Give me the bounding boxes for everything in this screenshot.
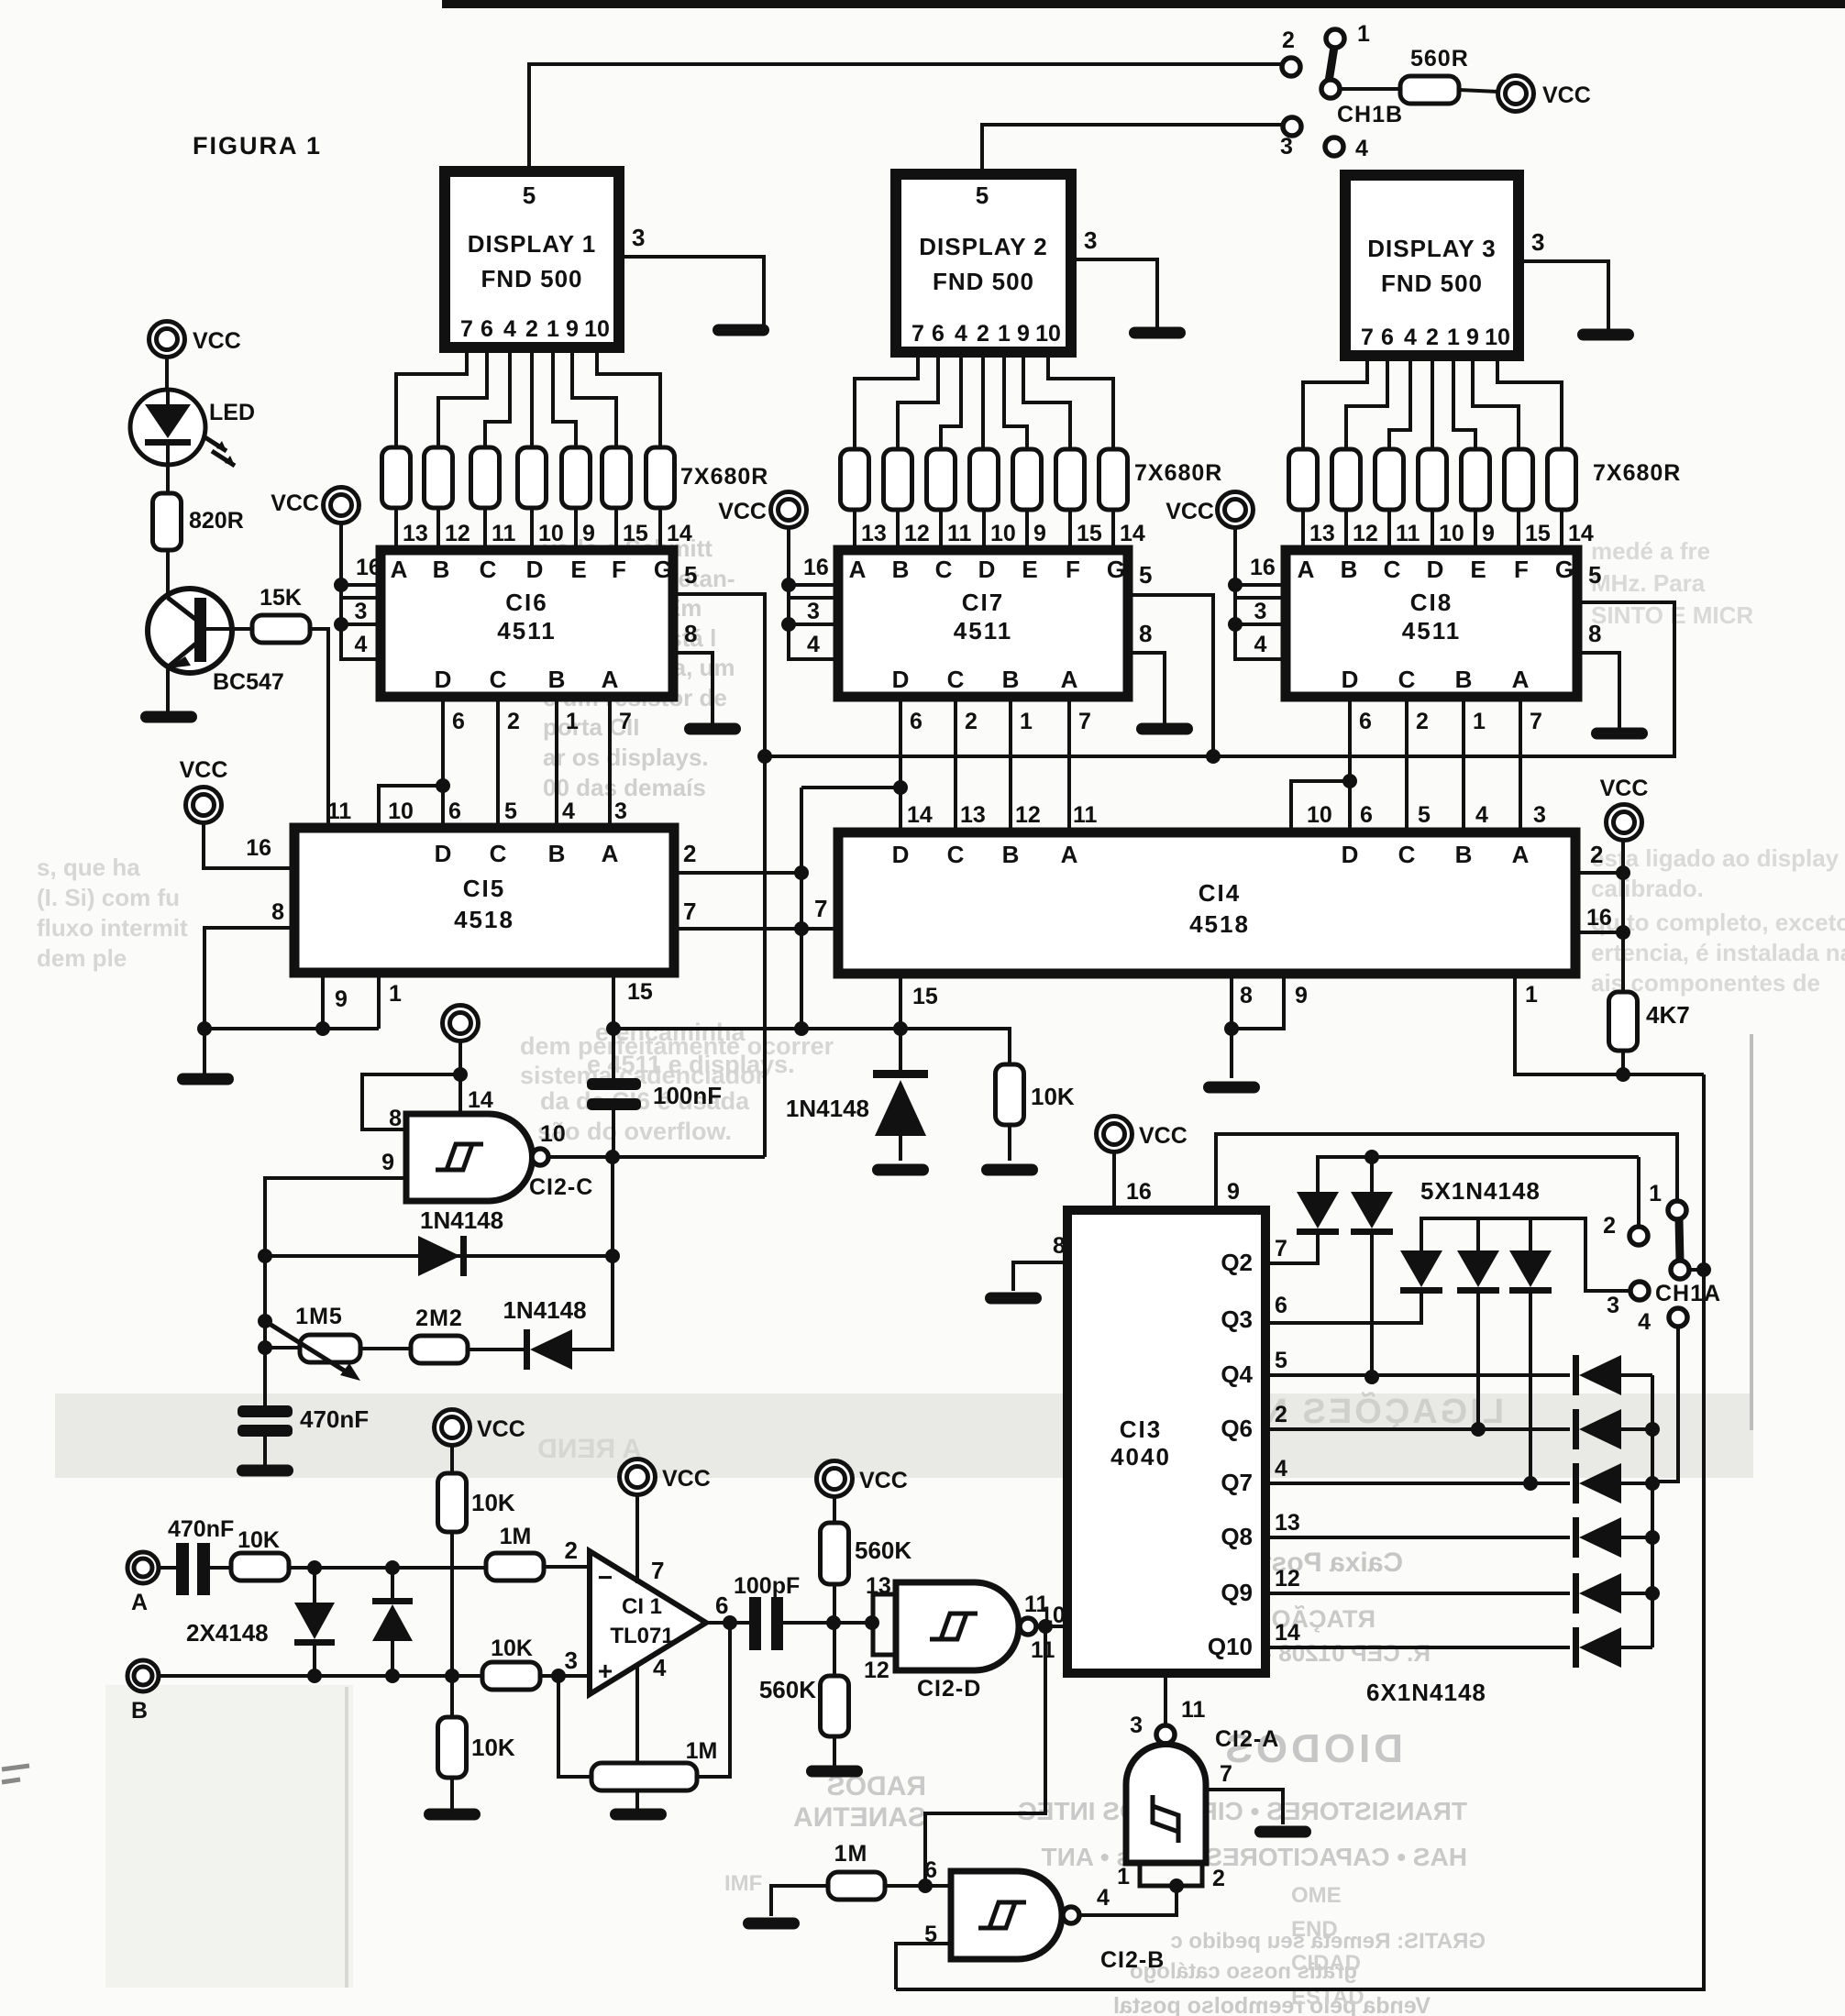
svg-text:11: 11 xyxy=(1181,1697,1206,1723)
svg-text:6: 6 xyxy=(1381,325,1394,350)
svg-text:CI3: CI3 xyxy=(1120,1416,1162,1443)
svg-text:2: 2 xyxy=(1282,28,1295,53)
svg-text:D: D xyxy=(435,840,452,867)
svg-text:A: A xyxy=(602,666,619,693)
svg-text:13: 13 xyxy=(1309,521,1335,546)
svg-text:3: 3 xyxy=(1533,802,1546,828)
svg-text:10: 10 xyxy=(584,316,610,342)
svg-text:SINTO E MICR: SINTO E MICR xyxy=(1591,601,1753,629)
svg-text:CI4: CI4 xyxy=(1199,879,1241,907)
svg-text:CI2-D: CI2-D xyxy=(917,1676,981,1702)
svg-text:6: 6 xyxy=(452,709,465,734)
svg-text:4: 4 xyxy=(355,632,368,657)
svg-text:4K7: 4K7 xyxy=(1646,1001,1690,1029)
svg-text:12: 12 xyxy=(864,1658,889,1683)
svg-text:11: 11 xyxy=(492,521,516,546)
svg-text:DISPLAY 2: DISPLAY 2 xyxy=(919,233,1048,260)
svg-text:C: C xyxy=(490,666,507,693)
svg-text:CI2-B: CI2-B xyxy=(1100,1947,1165,1973)
svg-text:10: 10 xyxy=(1035,321,1061,347)
svg-text:00 das demaís: 00 das demaís xyxy=(543,774,706,801)
svg-text:C: C xyxy=(947,841,965,868)
svg-text:1: 1 xyxy=(1525,982,1538,1008)
svg-text:E: E xyxy=(1470,556,1486,583)
svg-text:IMF: IMF xyxy=(724,1871,762,1896)
svg-text:fluxo intermit: fluxo intermit xyxy=(37,914,188,942)
svg-text:são do overflow.: são do overflow. xyxy=(537,1118,732,1145)
svg-text:13: 13 xyxy=(403,521,428,546)
svg-text:VCC: VCC xyxy=(180,757,228,783)
svg-text:14: 14 xyxy=(1275,1620,1300,1646)
svg-text:Q4: Q4 xyxy=(1221,1361,1253,1388)
svg-text:560K: 560K xyxy=(759,1676,816,1703)
svg-text:D: D xyxy=(1342,841,1359,868)
svg-text:1N4148: 1N4148 xyxy=(503,1296,586,1324)
svg-text:3: 3 xyxy=(614,799,627,824)
svg-text:Q9: Q9 xyxy=(1221,1579,1253,1606)
svg-text:2: 2 xyxy=(683,840,696,867)
svg-text:D: D xyxy=(435,666,452,693)
svg-text:G: G xyxy=(1107,556,1125,583)
svg-text:OME: OME xyxy=(1291,1883,1342,1908)
svg-text:A: A xyxy=(1298,556,1315,583)
svg-text:3: 3 xyxy=(1280,134,1293,160)
svg-text:F: F xyxy=(1514,556,1529,583)
svg-text:7: 7 xyxy=(1361,325,1374,350)
svg-text:B: B xyxy=(131,1698,148,1724)
svg-text:4: 4 xyxy=(807,632,820,657)
svg-text:1N4148: 1N4148 xyxy=(786,1095,869,1122)
svg-text:Q2: Q2 xyxy=(1221,1249,1253,1276)
svg-text:5: 5 xyxy=(1275,1348,1287,1373)
svg-text:10: 10 xyxy=(538,521,564,546)
svg-text:7X680R: 7X680R xyxy=(1134,460,1222,486)
svg-text:−: − xyxy=(598,1563,613,1592)
svg-text:6X1N4148: 6X1N4148 xyxy=(1366,1679,1486,1706)
svg-text:9: 9 xyxy=(566,316,579,342)
svg-text:E: E xyxy=(570,556,586,583)
svg-text:9: 9 xyxy=(335,986,348,1012)
svg-text:3: 3 xyxy=(632,224,645,251)
svg-text:6: 6 xyxy=(448,799,461,824)
svg-text:VCC: VCC xyxy=(718,499,767,524)
svg-text:4518: 4518 xyxy=(454,906,514,933)
svg-text:3: 3 xyxy=(355,599,368,624)
svg-text:1: 1 xyxy=(1473,709,1486,734)
svg-text:1M: 1M xyxy=(834,1841,868,1867)
svg-text:3: 3 xyxy=(1254,599,1267,624)
svg-text:+: + xyxy=(598,1657,613,1685)
svg-text:100pF: 100pF xyxy=(734,1573,800,1599)
svg-text:2: 2 xyxy=(525,316,538,342)
svg-text:F: F xyxy=(612,556,626,583)
svg-text:4: 4 xyxy=(955,321,967,347)
svg-text:10K: 10K xyxy=(1031,1083,1075,1110)
svg-text:4: 4 xyxy=(562,799,575,824)
svg-text:MHz. Para: MHz. Para xyxy=(1591,569,1706,597)
svg-text:A: A xyxy=(391,556,408,583)
svg-text:Q8: Q8 xyxy=(1221,1523,1253,1550)
svg-text:15K: 15K xyxy=(260,585,302,611)
svg-text:CI7: CI7 xyxy=(962,589,1004,616)
svg-text:TL071: TL071 xyxy=(610,1624,673,1648)
svg-text:9: 9 xyxy=(1227,1179,1240,1205)
svg-text:5: 5 xyxy=(1139,561,1152,589)
svg-text:6: 6 xyxy=(1275,1293,1287,1318)
svg-text:LED: LED xyxy=(209,400,255,425)
svg-text:7: 7 xyxy=(683,898,696,925)
svg-text:16: 16 xyxy=(1126,1179,1152,1205)
svg-text:4518: 4518 xyxy=(1189,910,1250,938)
svg-text:9: 9 xyxy=(582,521,595,546)
svg-text:15: 15 xyxy=(912,984,938,1009)
svg-text:5: 5 xyxy=(1588,561,1601,589)
svg-text:VCC: VCC xyxy=(271,490,319,516)
svg-text:(I. Si) com fu: (I. Si) com fu xyxy=(37,884,180,911)
svg-text:TRANSISTORES • CIRCUITOS INTEG: TRANSISTORES • CIRCUITOS INTEG xyxy=(1017,1797,1467,1825)
svg-text:10: 10 xyxy=(540,1121,566,1147)
svg-text:11: 11 xyxy=(327,799,352,824)
svg-text:VCC: VCC xyxy=(1166,499,1214,524)
svg-text:G: G xyxy=(654,556,672,583)
svg-text:CI8: CI8 xyxy=(1410,589,1453,616)
svg-text:14: 14 xyxy=(1568,521,1594,546)
svg-text:7: 7 xyxy=(460,316,473,342)
svg-text:Q10: Q10 xyxy=(1208,1633,1253,1660)
svg-text:B: B xyxy=(1002,666,1020,693)
svg-text:ar os displays.: ar os displays. xyxy=(543,744,709,771)
svg-text:dem ple: dem ple xyxy=(37,944,127,972)
svg-text:B: B xyxy=(433,556,450,583)
svg-text:3: 3 xyxy=(807,599,820,624)
svg-text:A REND: A REND xyxy=(537,1434,642,1464)
svg-text:8: 8 xyxy=(684,620,697,647)
svg-text:8: 8 xyxy=(1053,1233,1066,1259)
svg-text:4: 4 xyxy=(1355,136,1368,161)
svg-text:13: 13 xyxy=(861,521,887,546)
svg-text:Q3: Q3 xyxy=(1221,1305,1253,1333)
svg-text:CIDAD: CIDAD xyxy=(1291,1951,1361,1976)
svg-text:9: 9 xyxy=(1017,321,1030,347)
svg-text:2: 2 xyxy=(1426,325,1439,350)
svg-text:10: 10 xyxy=(990,521,1016,546)
svg-text:9: 9 xyxy=(1033,521,1046,546)
svg-text:2: 2 xyxy=(507,709,520,734)
svg-text:15: 15 xyxy=(627,979,653,1005)
svg-text:VCC: VCC xyxy=(859,1468,908,1493)
svg-text:DISPLAY 1: DISPLAY 1 xyxy=(468,230,597,258)
svg-text:7: 7 xyxy=(1275,1236,1287,1261)
svg-text:A: A xyxy=(1512,666,1530,693)
svg-text:470nF: 470nF xyxy=(300,1405,369,1433)
svg-text:12: 12 xyxy=(1353,521,1378,546)
svg-text:12: 12 xyxy=(1275,1566,1300,1592)
svg-text:VCC: VCC xyxy=(477,1416,525,1442)
svg-text:END: END xyxy=(1291,1917,1338,1942)
svg-text:Venda pelo reembolso postal: Venda pelo reembolso postal xyxy=(1113,1993,1431,2016)
svg-text:C: C xyxy=(1398,666,1416,693)
svg-text:D: D xyxy=(526,556,544,583)
svg-text:A: A xyxy=(131,1590,148,1615)
svg-text:F: F xyxy=(1066,556,1080,583)
svg-text:1: 1 xyxy=(1649,1181,1662,1206)
svg-text:D: D xyxy=(892,841,910,868)
svg-text:VCC: VCC xyxy=(193,328,241,354)
svg-text:7: 7 xyxy=(814,895,827,922)
svg-text:9: 9 xyxy=(1295,983,1308,1008)
svg-text:7: 7 xyxy=(1220,1761,1232,1787)
svg-text:1: 1 xyxy=(1117,1864,1130,1889)
svg-text:5: 5 xyxy=(504,799,517,824)
svg-text:470nF: 470nF xyxy=(168,1516,234,1542)
svg-text:Q7: Q7 xyxy=(1221,1469,1253,1496)
svg-text:1M: 1M xyxy=(500,1524,532,1549)
svg-text:8: 8 xyxy=(271,899,284,925)
svg-text:2: 2 xyxy=(965,709,978,734)
svg-text:16: 16 xyxy=(1586,905,1612,931)
svg-text:s, que ha: s, que ha xyxy=(37,854,140,881)
svg-text:B: B xyxy=(1455,666,1473,693)
svg-text:CI5: CI5 xyxy=(463,875,505,902)
svg-text:11: 11 xyxy=(1396,521,1420,546)
svg-text:ertencia, é instalada na: ertencia, é instalada na xyxy=(1591,939,1845,966)
svg-text:5: 5 xyxy=(523,182,536,209)
svg-text:6: 6 xyxy=(715,1592,728,1619)
svg-text:D: D xyxy=(1342,666,1359,693)
svg-text:13: 13 xyxy=(866,1573,891,1599)
svg-text:4: 4 xyxy=(1404,325,1417,350)
svg-text:11: 11 xyxy=(1031,1637,1055,1663)
svg-text:820R: 820R xyxy=(189,508,244,534)
svg-text:14: 14 xyxy=(907,802,933,828)
svg-text:C: C xyxy=(490,840,507,867)
svg-text:560R: 560R xyxy=(1410,46,1469,72)
svg-text:4511: 4511 xyxy=(497,617,556,644)
svg-text:3: 3 xyxy=(1130,1713,1143,1738)
svg-text:3: 3 xyxy=(565,1647,578,1674)
svg-text:4: 4 xyxy=(1638,1309,1651,1335)
svg-text:VCC: VCC xyxy=(1542,83,1591,108)
svg-text:1: 1 xyxy=(1357,21,1370,47)
svg-text:1: 1 xyxy=(1447,325,1460,350)
svg-text:9: 9 xyxy=(381,1150,394,1175)
svg-text:A: A xyxy=(1061,841,1078,868)
svg-text:DISPLAY 3: DISPLAY 3 xyxy=(1367,235,1497,262)
svg-text:5X1N4148: 5X1N4148 xyxy=(1420,1177,1541,1205)
svg-text:1: 1 xyxy=(998,321,1011,347)
svg-text:E: E xyxy=(1022,556,1037,583)
svg-text:12: 12 xyxy=(445,521,470,546)
svg-text:B: B xyxy=(548,666,566,693)
svg-text:8: 8 xyxy=(389,1106,402,1131)
svg-text:5: 5 xyxy=(1418,802,1431,828)
svg-text:C: C xyxy=(935,556,953,583)
svg-text:1N4148: 1N4148 xyxy=(420,1206,503,1234)
svg-text:FND 500: FND 500 xyxy=(481,265,582,292)
svg-text:B: B xyxy=(1455,841,1473,868)
svg-text:A: A xyxy=(602,840,619,867)
svg-text:14: 14 xyxy=(1120,521,1145,546)
svg-text:7: 7 xyxy=(1530,709,1542,734)
svg-text:CI6: CI6 xyxy=(505,589,547,616)
svg-text:9: 9 xyxy=(1466,325,1479,350)
svg-text:14: 14 xyxy=(468,1087,493,1113)
svg-text:A: A xyxy=(1512,841,1530,868)
svg-text:VCC: VCC xyxy=(662,1466,711,1492)
svg-text:5: 5 xyxy=(976,182,989,209)
svg-text:B: B xyxy=(1002,841,1020,868)
svg-text:2: 2 xyxy=(1212,1866,1225,1891)
svg-text:10: 10 xyxy=(1439,521,1464,546)
svg-text:FND 500: FND 500 xyxy=(933,268,1034,295)
svg-text:4: 4 xyxy=(653,1654,667,1681)
svg-text:15: 15 xyxy=(1525,521,1551,546)
svg-text:1: 1 xyxy=(547,316,559,342)
svg-text:8: 8 xyxy=(1139,620,1152,647)
svg-text:CH1B: CH1B xyxy=(1337,102,1403,127)
svg-text:16: 16 xyxy=(246,835,271,861)
svg-text:FND 500: FND 500 xyxy=(1381,270,1483,297)
svg-text:2: 2 xyxy=(1416,709,1429,734)
svg-text:SANETNA: SANETNA xyxy=(793,1802,926,1833)
svg-text:CH1A: CH1A xyxy=(1655,1281,1721,1306)
svg-text:CI2-C: CI2-C xyxy=(529,1174,593,1200)
svg-text:15: 15 xyxy=(623,521,648,546)
svg-text:C: C xyxy=(1398,841,1416,868)
svg-text:D: D xyxy=(1427,556,1444,583)
svg-text:C: C xyxy=(947,666,965,693)
svg-text:2M2: 2M2 xyxy=(415,1305,463,1331)
svg-text:B: B xyxy=(1341,556,1358,583)
svg-text:1M: 1M xyxy=(686,1738,718,1764)
svg-text:Q6: Q6 xyxy=(1221,1415,1253,1442)
svg-text:4040: 4040 xyxy=(1110,1443,1171,1471)
svg-text:10K: 10K xyxy=(471,1734,515,1761)
svg-text:13: 13 xyxy=(1275,1510,1300,1536)
svg-text:8: 8 xyxy=(1588,620,1601,647)
svg-text:7: 7 xyxy=(911,321,924,347)
svg-text:calibrado.: calibrado. xyxy=(1591,875,1704,902)
svg-text:10: 10 xyxy=(1485,325,1510,350)
svg-text:CI 1: CI 1 xyxy=(622,1594,662,1619)
svg-text:A: A xyxy=(1061,666,1078,693)
svg-text:1: 1 xyxy=(1020,709,1033,734)
svg-text:12: 12 xyxy=(1015,802,1041,828)
svg-text:CI2-A: CI2-A xyxy=(1215,1726,1279,1752)
svg-text:10K: 10K xyxy=(491,1636,533,1661)
svg-text:7: 7 xyxy=(619,709,632,734)
svg-text:2: 2 xyxy=(1603,1213,1616,1239)
svg-text:A: A xyxy=(849,556,867,583)
svg-text:16: 16 xyxy=(803,555,829,580)
svg-text:2: 2 xyxy=(565,1537,578,1564)
svg-text:6: 6 xyxy=(932,321,945,347)
svg-text:11: 11 xyxy=(947,521,972,546)
svg-text:VCC: VCC xyxy=(1139,1123,1188,1149)
svg-text:7X680R: 7X680R xyxy=(680,464,768,490)
svg-text:4: 4 xyxy=(1475,802,1488,828)
svg-text:1: 1 xyxy=(389,981,402,1007)
svg-text:HAS • CAPACITORES • LEDs • ANT: HAS • CAPACITORES • LEDs • ANT xyxy=(1042,1843,1468,1871)
svg-text:12: 12 xyxy=(904,521,930,546)
svg-text:1M5: 1M5 xyxy=(295,1304,343,1329)
svg-text:7: 7 xyxy=(651,1557,664,1584)
svg-text:B: B xyxy=(892,556,910,583)
svg-text:10K: 10K xyxy=(471,1489,515,1516)
svg-text:C: C xyxy=(1384,556,1401,583)
svg-text:3: 3 xyxy=(1531,228,1544,256)
svg-text:14: 14 xyxy=(667,521,692,546)
svg-text:8: 8 xyxy=(1240,983,1253,1008)
svg-text:3: 3 xyxy=(1084,226,1097,254)
svg-text:6: 6 xyxy=(481,316,493,342)
svg-text:7X680R: 7X680R xyxy=(1593,460,1681,486)
svg-text:10: 10 xyxy=(1307,802,1332,828)
svg-text:100nF: 100nF xyxy=(653,1082,722,1109)
svg-text:4: 4 xyxy=(1275,1456,1287,1482)
svg-text:2: 2 xyxy=(1590,841,1603,868)
svg-text:10: 10 xyxy=(388,799,414,824)
svg-text:2: 2 xyxy=(1275,1402,1287,1427)
svg-text:4: 4 xyxy=(1097,1885,1110,1911)
svg-text:4511: 4511 xyxy=(954,617,1012,644)
svg-text:3: 3 xyxy=(1607,1293,1619,1318)
svg-text:2: 2 xyxy=(977,321,989,347)
svg-text:BC547: BC547 xyxy=(213,669,284,695)
svg-text:2X4148: 2X4148 xyxy=(186,1619,269,1647)
svg-text:4: 4 xyxy=(1254,632,1267,657)
svg-text:1: 1 xyxy=(566,709,579,734)
svg-text:7: 7 xyxy=(1078,709,1091,734)
svg-text:6: 6 xyxy=(910,709,922,734)
svg-text:5: 5 xyxy=(684,561,697,589)
svg-text:D: D xyxy=(978,556,996,583)
svg-text:VCC: VCC xyxy=(1600,776,1649,801)
svg-text:16: 16 xyxy=(1250,555,1276,580)
svg-text:13: 13 xyxy=(960,802,986,828)
svg-text:C: C xyxy=(480,556,497,583)
svg-text:FIGURA 1: FIGURA 1 xyxy=(193,132,322,160)
svg-text:10K: 10K xyxy=(238,1527,280,1553)
svg-text:B: B xyxy=(548,840,566,867)
svg-text:11: 11 xyxy=(1073,802,1098,828)
svg-text:9: 9 xyxy=(1482,521,1495,546)
svg-text:15: 15 xyxy=(1077,521,1102,546)
svg-text:medé a fre: medé a fre xyxy=(1591,537,1710,565)
svg-text:6: 6 xyxy=(1359,709,1372,734)
svg-text:D: D xyxy=(892,666,910,693)
svg-text:6: 6 xyxy=(1360,802,1373,828)
svg-text:4511: 4511 xyxy=(1402,617,1461,644)
svg-text:G: G xyxy=(1555,556,1574,583)
svg-text:560K: 560K xyxy=(855,1537,911,1564)
svg-text:4: 4 xyxy=(503,316,516,342)
